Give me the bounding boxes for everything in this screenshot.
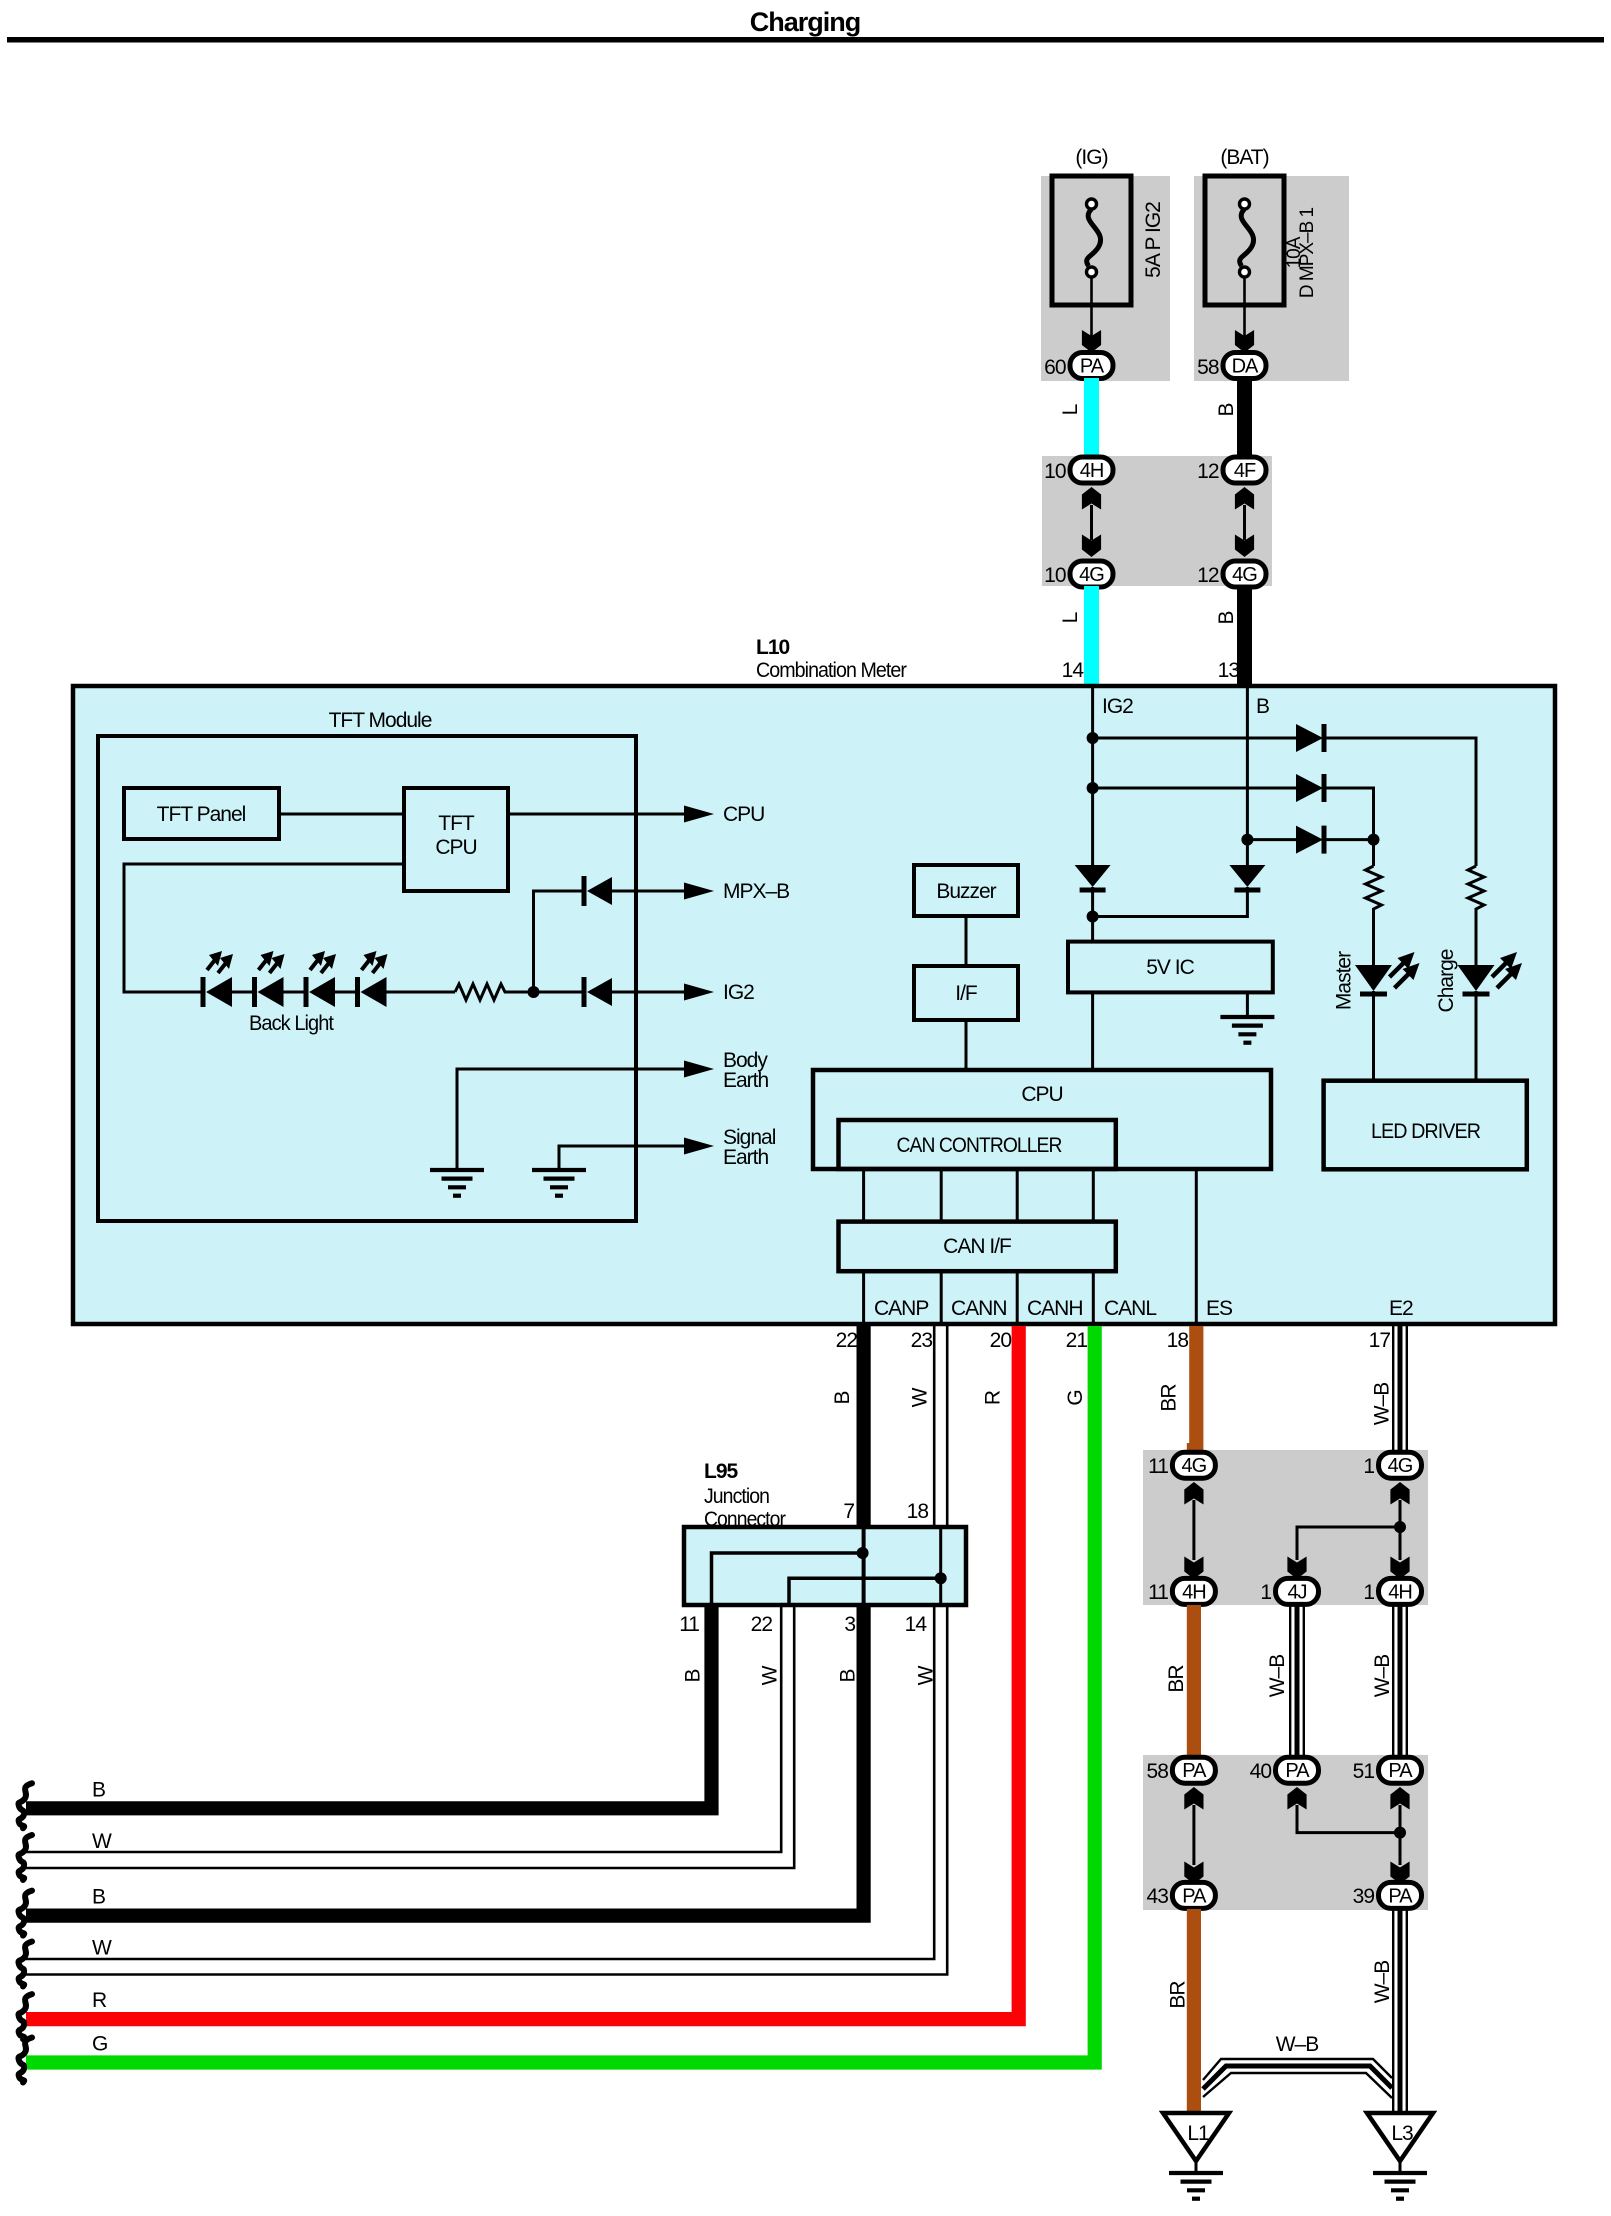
wire resistor to LED xyxy=(1372,910,1375,965)
ground point L3 xyxy=(1367,2113,1433,2161)
wire diode to node xyxy=(1324,838,1374,841)
svg-text:CANL: CANL xyxy=(1104,1297,1156,1320)
svg-text:PA: PA xyxy=(1388,1885,1413,1907)
wire B junction pin3 to left edge xyxy=(26,1605,864,1916)
fuse 5A P IG2 xyxy=(1052,176,1131,305)
wire B through junction xyxy=(862,1527,866,1605)
svg-text:10: 10 xyxy=(1044,564,1066,587)
svg-text:W: W xyxy=(909,1387,932,1407)
svg-text:11: 11 xyxy=(1148,1455,1168,1478)
connector pair arrows xyxy=(1390,1482,1409,1505)
wire W junction pin22 to left edge xyxy=(26,1605,781,1852)
wire CAN controller to CAN I/F xyxy=(940,1169,943,1222)
svg-text:22: 22 xyxy=(751,1613,773,1636)
svg-text:L95: L95 xyxy=(704,1460,739,1483)
wire from fuse to connector xyxy=(1243,277,1246,336)
wire resistor to node xyxy=(506,991,582,994)
CAN CONTROLLER box xyxy=(839,1120,1116,1169)
connector arrow xyxy=(1235,330,1254,353)
svg-text:CPU: CPU xyxy=(1021,1083,1062,1106)
wire CAN controller to CAN I/F xyxy=(1092,1169,1095,1222)
diode to MPX-B xyxy=(584,876,612,906)
wire node to MPX-B diode xyxy=(534,891,583,992)
wire B junction pin11 to left edge xyxy=(26,1605,712,1808)
svg-text:BR: BR xyxy=(1167,1981,1190,2009)
connector pair arrows xyxy=(1235,487,1254,510)
wire BR into 4G xyxy=(1187,1443,1201,1455)
wire I/F to CPU xyxy=(965,1020,968,1070)
svg-text:G: G xyxy=(92,2033,107,2056)
svg-text:W: W xyxy=(92,1937,112,1960)
wire diode to MPX-B label xyxy=(612,890,688,893)
svg-text:L3: L3 xyxy=(1391,2122,1413,2145)
wire LED to LED driver xyxy=(1475,991,1478,1081)
svg-text:CANN: CANN xyxy=(951,1297,1007,1320)
connector pair arrows xyxy=(1390,1787,1409,1810)
wire W through junction xyxy=(939,1527,942,1605)
wire xyxy=(335,991,358,994)
diode (middle, to master lamp) xyxy=(1296,774,1324,802)
svg-text:B: B xyxy=(92,1778,105,1801)
fuse 5A P IG2 block background xyxy=(1041,176,1170,381)
svg-text:L10: L10 xyxy=(756,636,790,659)
svg-text:17: 17 xyxy=(1369,1329,1391,1352)
ground (signal earth) xyxy=(532,1170,586,1196)
svg-text:BR: BR xyxy=(1165,1665,1188,1693)
svg-text:Junction: Junction xyxy=(704,1485,769,1508)
I/F box xyxy=(914,966,1018,1020)
wire 5V IC to ground xyxy=(1246,992,1249,1017)
continuation mark wire G xyxy=(18,2038,32,2083)
svg-text:DA: DA xyxy=(1232,356,1259,378)
svg-text:B: B xyxy=(1215,611,1238,624)
svg-text:1: 1 xyxy=(1260,1581,1271,1604)
wire W-B jog L1 to L3 xyxy=(1203,2059,1392,2080)
branch wire to 4J xyxy=(1297,1527,1400,1560)
svg-text:TFT: TFT xyxy=(438,812,475,835)
wire B to diode xyxy=(1247,838,1296,841)
diode (top, to charge lamp) xyxy=(1296,724,1324,752)
svg-text:4H: 4H xyxy=(1080,460,1104,482)
wire CAN controller to CAN I/F xyxy=(862,1169,865,1222)
5V IC box xyxy=(1068,942,1273,993)
wire xyxy=(232,991,255,994)
resistor (Master lamp) xyxy=(1366,866,1382,914)
ground symbol L3 xyxy=(1373,2173,1427,2199)
wire CAN I/F to pin xyxy=(1016,1271,1019,1326)
LED Charge xyxy=(1458,952,1523,994)
title rule xyxy=(7,37,1604,43)
wire TFT CPU to backlight chain xyxy=(124,864,404,992)
svg-text:13: 13 xyxy=(1218,659,1240,682)
wire W-B 4H to PA xyxy=(1393,1605,1407,1757)
backlight LED 2 xyxy=(255,951,285,1007)
svg-text:PA: PA xyxy=(1080,356,1105,378)
svg-text:TFT Panel: TFT Panel xyxy=(157,803,246,826)
svg-text:4F: 4F xyxy=(1234,460,1256,482)
ground (body earth) xyxy=(430,1170,484,1196)
wire W-B 4J to PA xyxy=(1290,1605,1304,1757)
fuse 10A D MPX-B 1 block background xyxy=(1194,176,1349,381)
Buzzer box xyxy=(914,865,1018,916)
svg-text:W: W xyxy=(92,1830,112,1853)
node 5V xyxy=(1087,911,1099,923)
wire L (cyan) 4G to meter pin 14 xyxy=(1084,586,1099,686)
TFT CPU box xyxy=(404,788,508,891)
node xyxy=(1394,1827,1406,1839)
svg-text:L: L xyxy=(1059,612,1082,623)
connector pair arrows xyxy=(1082,487,1101,510)
ground symbol L1 xyxy=(1169,2173,1223,2199)
svg-text:23: 23 xyxy=(911,1329,933,1352)
svg-text:W: W xyxy=(915,1665,938,1685)
svg-text:CANP: CANP xyxy=(874,1297,928,1320)
wire R (CANH) xyxy=(26,1326,1019,2019)
wire BR PA to ground L1 xyxy=(1187,1909,1201,2114)
svg-text:58: 58 xyxy=(1147,1760,1169,1783)
svg-text:4G: 4G xyxy=(1182,1455,1207,1477)
branch wire 40 to node xyxy=(1297,1805,1400,1833)
wire diode to IG2 label xyxy=(612,991,688,994)
svg-text:IG2: IG2 xyxy=(1102,695,1133,718)
connector block PA background xyxy=(1143,1755,1428,1910)
svg-text:Back Light: Back Light xyxy=(249,1012,334,1035)
continuation mark wire W xyxy=(18,1835,32,1880)
svg-text:22: 22 xyxy=(836,1329,858,1352)
wire signal earth xyxy=(559,1146,688,1170)
svg-text:D MPX–B 1: D MPX–B 1 xyxy=(1297,207,1318,298)
svg-text:40: 40 xyxy=(1250,1760,1272,1783)
svg-text:B: B xyxy=(92,1886,105,1909)
svg-text:E2: E2 xyxy=(1389,1297,1413,1320)
svg-text:14: 14 xyxy=(905,1613,928,1636)
svg-text:MPX–B: MPX–B xyxy=(723,880,789,903)
backlight LED 4 xyxy=(358,951,388,1007)
svg-text:11: 11 xyxy=(1148,1581,1168,1604)
svg-text:18: 18 xyxy=(1167,1329,1189,1352)
svg-text:12: 12 xyxy=(1197,564,1219,587)
svg-text:18: 18 xyxy=(907,1500,929,1523)
svg-text:CPU: CPU xyxy=(435,836,476,859)
svg-text:Earth: Earth xyxy=(723,1146,769,1169)
wire 5V IC to CPU xyxy=(1091,992,1094,1070)
svg-text:PA: PA xyxy=(1388,1760,1413,1782)
wire B (black) 4G to meter pin 13 xyxy=(1237,586,1252,686)
wire from fuse to connector xyxy=(1090,277,1093,336)
svg-text:W–B: W–B xyxy=(1371,1655,1394,1698)
node xyxy=(857,1547,869,1559)
node xyxy=(1394,1521,1406,1533)
svg-text:4G: 4G xyxy=(1079,564,1104,586)
svg-text:4H: 4H xyxy=(1388,1581,1412,1603)
svg-text:B: B xyxy=(1256,695,1269,718)
svg-text:11: 11 xyxy=(679,1613,699,1636)
junction internal wire to pin 11 xyxy=(712,1553,863,1605)
node xyxy=(935,1572,947,1584)
svg-text:L: L xyxy=(1059,404,1082,415)
svg-text:B: B xyxy=(1215,403,1238,416)
wire BR (ES) xyxy=(1189,1326,1203,1453)
svg-text:LED DRIVER: LED DRIVER xyxy=(1371,1120,1481,1143)
svg-text:1: 1 xyxy=(1363,1581,1374,1604)
svg-text:21: 21 xyxy=(1066,1329,1088,1352)
fuse 10A xyxy=(1205,176,1284,305)
node on IG2 xyxy=(1087,782,1099,794)
svg-text:4G: 4G xyxy=(1232,564,1257,586)
backlight LED 3 xyxy=(306,951,336,1007)
svg-text:IG2: IG2 xyxy=(723,981,754,1004)
junction connector box xyxy=(684,1527,966,1605)
resistor (Charge lamp) xyxy=(1468,866,1484,914)
svg-text:10: 10 xyxy=(1044,460,1066,483)
wire resistor to LED xyxy=(1475,910,1478,965)
CPU box xyxy=(813,1070,1271,1169)
node master branch xyxy=(1368,834,1380,846)
wire TFT Panel to TFT CPU xyxy=(279,813,404,816)
diode to IG2 xyxy=(584,977,612,1007)
svg-text:B: B xyxy=(831,1391,854,1404)
wire W junction pin14 to left edge xyxy=(26,1605,934,1959)
wire B (black) fuse to 4F xyxy=(1237,378,1252,458)
svg-text:1: 1 xyxy=(1363,1455,1374,1478)
svg-text:4J: 4J xyxy=(1287,1581,1306,1603)
svg-text:39: 39 xyxy=(1353,1885,1375,1908)
wire L (cyan) fuse to 4H xyxy=(1084,378,1099,458)
diode down (B) xyxy=(1229,865,1265,890)
connector arrow xyxy=(1082,330,1101,353)
svg-text:W: W xyxy=(759,1665,782,1685)
wire node to master resistor xyxy=(1372,840,1375,866)
junction internal wire to pin 22 xyxy=(789,1578,941,1605)
wire B internal xyxy=(1246,688,1249,865)
wire LED chain to resistor xyxy=(387,991,456,994)
connector pair arrows xyxy=(1184,1787,1203,1810)
CAN I/F box xyxy=(839,1222,1116,1272)
svg-text:60: 60 xyxy=(1044,356,1066,379)
continuation mark wire B xyxy=(18,1783,32,1828)
wire ES from CPU xyxy=(1195,1169,1198,1326)
svg-text:PA: PA xyxy=(1182,1885,1207,1907)
svg-text:R: R xyxy=(982,1390,1005,1405)
connector pair arrows xyxy=(1184,1482,1203,1505)
node on B xyxy=(1241,834,1253,846)
svg-text:B: B xyxy=(682,1669,705,1682)
svg-text:CANH: CANH xyxy=(1027,1297,1083,1320)
wire W-B (E2) xyxy=(1393,1326,1407,1453)
resistor (backlight) xyxy=(455,984,506,1000)
TFT Panel box xyxy=(124,788,279,839)
svg-text:(BAT): (BAT) xyxy=(1220,146,1268,169)
wire diode to master branch xyxy=(1324,788,1374,840)
wire B (CANP) meter to junction xyxy=(856,1326,870,1528)
svg-text:5A P IG2: 5A P IG2 xyxy=(1142,202,1165,278)
node on IG2 xyxy=(1087,732,1099,744)
svg-text:PA: PA xyxy=(1285,1760,1310,1782)
wire CAN I/F to pin xyxy=(862,1271,865,1326)
svg-text:Master: Master xyxy=(1333,951,1356,1010)
wire CAN I/F to pin xyxy=(940,1271,943,1326)
connector block 4H/4G 4F/4G background xyxy=(1042,456,1272,586)
wire W (CANN) meter to junction xyxy=(934,1326,947,1529)
svg-text:12: 12 xyxy=(1197,460,1219,483)
svg-text:Charging: Charging xyxy=(750,7,861,37)
wire IG2 internal xyxy=(1091,688,1094,865)
wire diode to charge branch xyxy=(1324,738,1476,866)
wire buzzer to I/F xyxy=(965,916,968,966)
LED DRIVER box xyxy=(1324,1081,1527,1170)
svg-text:58: 58 xyxy=(1197,356,1219,379)
wire BR 4H to PA xyxy=(1187,1605,1201,1757)
svg-text:Combination Meter: Combination Meter xyxy=(756,659,907,682)
wire xyxy=(284,991,307,994)
svg-text:4H: 4H xyxy=(1182,1581,1206,1603)
wire CAN controller to CAN I/F xyxy=(1016,1169,1019,1222)
svg-text:R: R xyxy=(92,1989,107,2012)
svg-text:CPU: CPU xyxy=(723,803,764,826)
wire IG2 to charge diode xyxy=(1093,737,1296,740)
svg-text:W–B: W–B xyxy=(1371,1383,1394,1426)
wire CAN I/F to pin xyxy=(1092,1271,1095,1326)
svg-text:G: G xyxy=(1064,1390,1087,1405)
svg-text:I/F: I/F xyxy=(955,982,977,1005)
continuation mark wire W xyxy=(18,1942,32,1987)
wire G (CANL) xyxy=(26,1326,1095,2063)
svg-text:Charge: Charge xyxy=(1435,949,1458,1012)
svg-text:51: 51 xyxy=(1353,1760,1375,1783)
LED Master xyxy=(1355,952,1420,994)
wire LED to LED driver xyxy=(1372,991,1375,1081)
svg-text:W–B: W–B xyxy=(1371,1961,1394,2004)
wire TFT CPU to CPU signal xyxy=(508,813,688,816)
svg-text:Earth: Earth xyxy=(723,1069,769,1092)
wire W-B PA to ground L3 xyxy=(1393,1909,1407,2113)
combination meter box xyxy=(73,686,1555,1324)
svg-text:TFT Module: TFT Module xyxy=(329,709,432,732)
svg-text:CAN I/F: CAN I/F xyxy=(943,1235,1011,1258)
svg-text:5V IC: 5V IC xyxy=(1146,956,1194,979)
svg-text:W–B: W–B xyxy=(1266,1655,1289,1698)
ground (5V IC) xyxy=(1220,1017,1274,1043)
wire IG2 to master diode xyxy=(1093,787,1296,790)
svg-text:B: B xyxy=(837,1669,860,1682)
svg-text:PA: PA xyxy=(1182,1760,1207,1782)
svg-text:L1: L1 xyxy=(1187,2122,1209,2145)
connector block 4G/4H background xyxy=(1143,1450,1428,1605)
connector arrow xyxy=(1287,1787,1306,1810)
continuation mark wire R xyxy=(18,1994,32,2039)
svg-text:7: 7 xyxy=(843,1500,854,1523)
TFT Module box xyxy=(98,736,636,1221)
svg-text:Buzzer: Buzzer xyxy=(936,880,996,903)
svg-text:20: 20 xyxy=(990,1329,1012,1352)
wire B diode to node xyxy=(1093,887,1248,917)
svg-text:(IG): (IG) xyxy=(1075,146,1107,169)
svg-text:CAN CONTROLLER: CAN CONTROLLER xyxy=(897,1134,1063,1157)
svg-text:W–B: W–B xyxy=(1276,2033,1319,2056)
svg-text:4G: 4G xyxy=(1388,1455,1413,1477)
wire body earth xyxy=(457,1069,688,1170)
svg-text:3: 3 xyxy=(844,1613,855,1636)
svg-text:14: 14 xyxy=(1062,659,1085,682)
svg-text:43: 43 xyxy=(1147,1885,1169,1908)
svg-text:ES: ES xyxy=(1206,1297,1233,1320)
continuation mark wire B xyxy=(18,1891,32,1936)
diode down (IG2) xyxy=(1075,865,1111,890)
backlight LED 1 xyxy=(203,951,233,1007)
node (junction dot) xyxy=(528,986,540,998)
diode (from B) xyxy=(1296,826,1324,854)
ground point L1 xyxy=(1163,2113,1229,2161)
svg-text:BR: BR xyxy=(1158,1384,1181,1412)
